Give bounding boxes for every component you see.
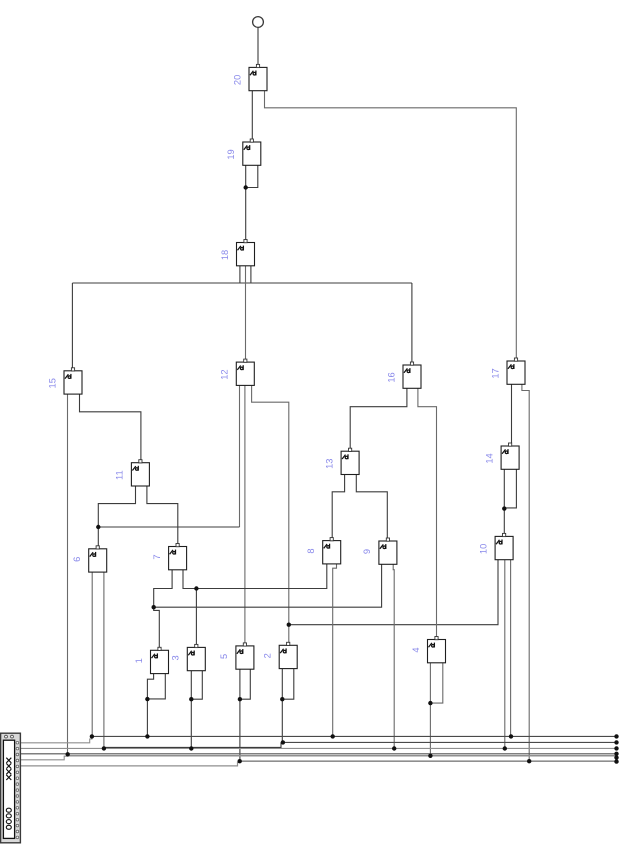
- wire U4 out-left to bus: [429, 663, 431, 756]
- adder U5: [236, 643, 254, 669]
- wire U7 out-left to node: [154, 570, 172, 607]
- svg-text:13: 13: [324, 459, 334, 469]
- node U3 join: [189, 697, 193, 701]
- svg-text:8: 8: [306, 549, 316, 554]
- wire horizontal rail y283: [72, 282, 412, 284]
- adder U8: [323, 538, 341, 564]
- svg-text:5: 5: [219, 654, 229, 659]
- node rail y588 to U3: [194, 586, 198, 590]
- wire U4 out-right to node: [430, 663, 442, 703]
- node rail y607: [152, 605, 156, 609]
- wire U10 center to bus: [504, 560, 506, 749]
- output pin circle: [253, 17, 264, 28]
- wire U16 out-left to U13: [350, 388, 407, 448]
- adder U17: [507, 358, 525, 384]
- node U19 join: [244, 185, 248, 189]
- svg-text:9: 9: [362, 549, 372, 554]
- wire U20 out-right to U17: [265, 91, 517, 359]
- adder U15: [64, 368, 82, 394]
- adder U3: [187, 644, 205, 670]
- junction bus1 U6: [90, 734, 94, 738]
- wire U6 out-right to bus: [103, 572, 105, 749]
- wire U2 out-right to node: [282, 669, 294, 700]
- junction bus3 end: [614, 746, 618, 750]
- wire U17 out-right to bus: [522, 384, 529, 761]
- adder U4: [428, 637, 446, 663]
- junction bus6 U5: [238, 759, 242, 763]
- junction bus1 U1: [145, 734, 149, 738]
- junction bus3 U9: [392, 746, 396, 750]
- wire U18 out-right down: [250, 266, 252, 283]
- wire node to U1: [154, 607, 160, 648]
- junction bus3 U3: [189, 746, 193, 750]
- svg-text:18: 18: [220, 250, 230, 260]
- wire U16 out-right to U4: [418, 388, 437, 636]
- svg-text:3: 3: [171, 655, 181, 660]
- svg-text:6: 6: [72, 557, 82, 562]
- junction bus5 U4: [428, 754, 432, 758]
- wire U14 out-left to U10: [503, 469, 505, 533]
- adder U20: [249, 64, 267, 90]
- wire U5 out-left to bus: [239, 669, 241, 761]
- wire U13 out-right to U9: [356, 475, 387, 539]
- junction bus1 U10: [509, 734, 513, 738]
- adder U19: [243, 139, 261, 165]
- junction bus6 U17: [527, 759, 531, 763]
- adder U11: [131, 460, 149, 486]
- node U4 join: [428, 701, 432, 705]
- wire node to U10 in-left: [289, 560, 498, 625]
- wire U9 out-right to bus: [393, 564, 394, 748]
- node U14 join: [502, 506, 506, 510]
- wire bus line 3 from input pin 2: [18, 747, 617, 749]
- node U5 join: [238, 697, 242, 701]
- wire U6 out-left to bus: [91, 572, 93, 737]
- wire U12 out-left down: [239, 385, 241, 527]
- wire input pin 1: [18, 736, 92, 742]
- wire bus overlay segment: [104, 742, 281, 747]
- wire rail to U15: [71, 283, 73, 368]
- wire horizontal y527 to node: [98, 526, 239, 528]
- svg-text:16: 16: [386, 372, 396, 382]
- svg-text:15: 15: [47, 378, 57, 388]
- wire U7 out-right rail to U8 in-left: [183, 564, 327, 589]
- junction bus6 end: [614, 759, 618, 763]
- junction bus4 U15: [66, 752, 70, 756]
- svg-text:20: 20: [232, 75, 242, 85]
- wire U1 out-left to bus: [147, 674, 153, 737]
- wire U15 out-left to bus: [67, 394, 69, 754]
- adder U9: [379, 538, 397, 564]
- wire output pin to U20: [257, 28, 259, 65]
- wire bus line 4 from input pin 3: [18, 753, 617, 755]
- adder U13: [341, 448, 359, 474]
- wire U20 out-left to U19: [251, 91, 253, 140]
- wire U18 center to U12: [245, 266, 247, 360]
- wire rail y607 to U9 in-left: [154, 564, 382, 607]
- wire U5 out-right to node: [240, 669, 250, 699]
- node y527 tee: [96, 525, 100, 529]
- adder U16: [403, 362, 421, 388]
- wire U11 out-right to U7: [147, 486, 178, 544]
- svg-text:1: 1: [134, 658, 144, 663]
- junction bus4 end: [614, 752, 618, 756]
- svg-text:4: 4: [411, 647, 421, 652]
- wire U3 out-left to bus: [190, 671, 192, 749]
- wire input pin 4: [18, 754, 68, 760]
- junction bus3 U10: [503, 746, 507, 750]
- wire U2 out-left to bus: [281, 669, 283, 743]
- adder U1: [151, 647, 169, 673]
- adder U6: [89, 546, 107, 572]
- svg-text:7: 7: [152, 554, 162, 559]
- wire U12 center to U5: [244, 385, 246, 643]
- adder U7: [169, 544, 187, 570]
- junction bus5 end: [614, 755, 618, 759]
- adder U2: [279, 642, 297, 668]
- svg-text:17: 17: [490, 368, 500, 378]
- junction bus2 end: [614, 740, 618, 744]
- svg-text:10: 10: [478, 544, 488, 554]
- svg-text:14: 14: [484, 453, 494, 463]
- wire input pin 5: [18, 761, 240, 766]
- node U1 join: [145, 697, 149, 701]
- adder U10: [495, 533, 513, 559]
- adder U18: [237, 240, 255, 266]
- wire bus line 1: [92, 735, 617, 737]
- input component XXXX/0000: [1, 733, 21, 843]
- junction bus2 U2: [281, 740, 285, 744]
- wire bus line 6: [240, 760, 617, 762]
- junction bus3 U6: [102, 746, 106, 750]
- wire U13 out-left to U8: [332, 475, 344, 538]
- wire U17 out-left to U14: [511, 384, 513, 443]
- wire U19 out-right to node: [246, 165, 258, 187]
- wire U18 out-left down: [239, 266, 241, 283]
- adder U14: [501, 443, 519, 469]
- adder U12: [236, 359, 254, 385]
- svg-text:11: 11: [115, 470, 125, 480]
- wire rail to U16: [411, 283, 413, 362]
- wire bus line 2: [283, 741, 617, 743]
- wire U15 out-right to U11: [80, 394, 141, 460]
- wire U11 out-left to U6: [98, 486, 135, 546]
- wire bus line 5: [68, 755, 617, 757]
- wire U19 out-left to U18: [245, 165, 247, 240]
- svg-text:12: 12: [220, 369, 230, 379]
- wire U10 out-right to bus: [510, 560, 512, 737]
- wire U3 out-right to node: [191, 671, 202, 700]
- wire U12 out-right to U2: [252, 385, 289, 642]
- svg-text:19: 19: [226, 149, 236, 159]
- junction bus1 U8: [331, 734, 335, 738]
- junction bus1 end: [614, 734, 618, 738]
- wire U8 out-right to bus: [333, 564, 337, 737]
- node U2 join: [280, 697, 284, 701]
- svg-text:2: 2: [263, 653, 273, 658]
- wire U1 out-right to node: [147, 674, 165, 699]
- node U2/U10 tee: [287, 623, 291, 627]
- wire U14 out-right to node: [504, 469, 516, 508]
- wire node to U3: [195, 589, 197, 646]
